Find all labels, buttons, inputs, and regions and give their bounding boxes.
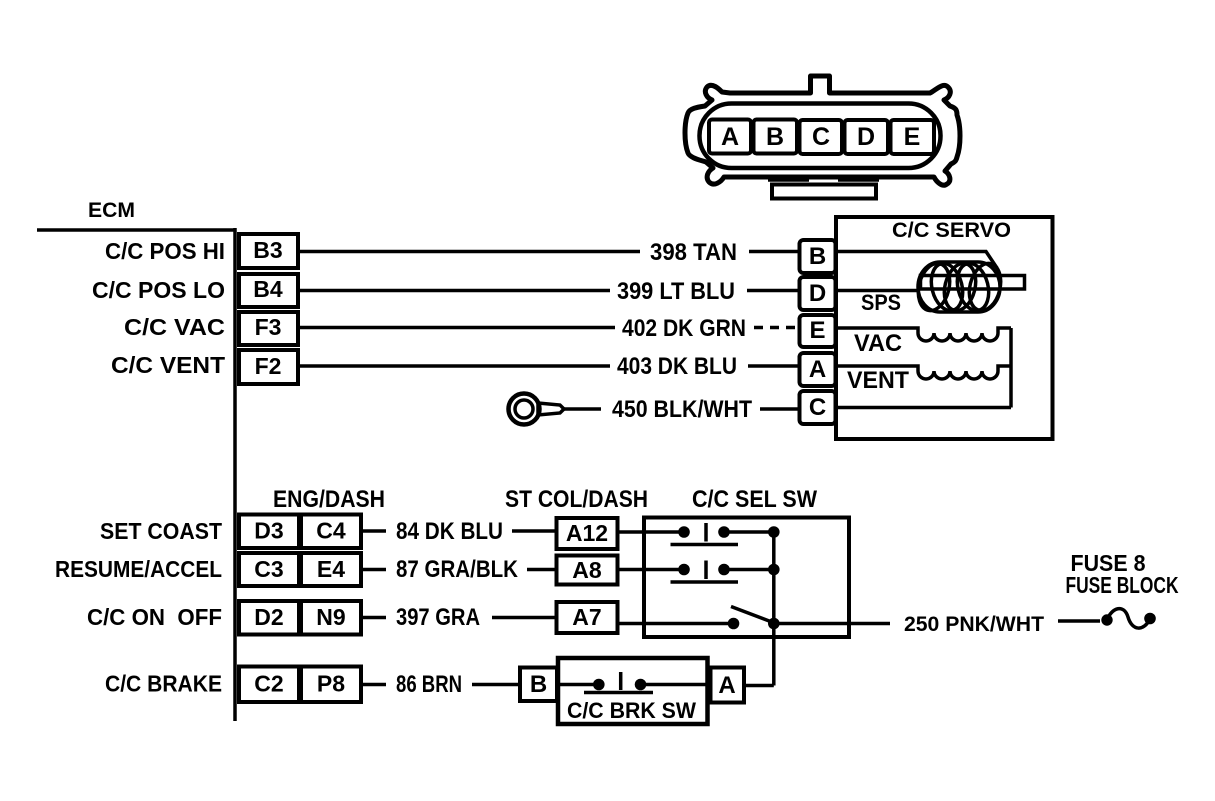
svg-text:E: E bbox=[809, 317, 825, 344]
svg-text:ST COL/DASH: ST COL/DASH bbox=[505, 486, 648, 513]
svg-text:RESUME/ACCEL: RESUME/ACCEL bbox=[55, 556, 222, 582]
svg-text:C4: C4 bbox=[316, 518, 346, 544]
svg-text:C/C VAC: C/C VAC bbox=[124, 314, 225, 340]
svg-text:A12: A12 bbox=[566, 520, 608, 546]
svg-text:A: A bbox=[809, 356, 826, 383]
svg-text:P8: P8 bbox=[317, 671, 345, 697]
svg-text:C/C ON OFF: C/C ON OFF bbox=[87, 604, 222, 630]
svg-text:ENG/DASH: ENG/DASH bbox=[273, 486, 385, 513]
svg-text:D2: D2 bbox=[254, 604, 283, 630]
svg-text:E: E bbox=[904, 123, 921, 151]
svg-text:ECM: ECM bbox=[88, 199, 135, 222]
svg-text:250 PNK/WHT: 250 PNK/WHT bbox=[904, 613, 1044, 636]
svg-text:C/C POS HI: C/C POS HI bbox=[105, 238, 225, 264]
svg-text:VENT: VENT bbox=[847, 367, 909, 394]
svg-text:D3: D3 bbox=[254, 518, 283, 544]
svg-text:C: C bbox=[809, 394, 826, 421]
svg-text:A: A bbox=[718, 672, 735, 699]
svg-text:C/C SEL SW: C/C SEL SW bbox=[692, 486, 817, 513]
svg-text:84 DK BLU: 84 DK BLU bbox=[396, 518, 503, 545]
svg-text:C/C SERVO: C/C SERVO bbox=[892, 219, 1011, 242]
svg-text:C/C BRAKE: C/C BRAKE bbox=[105, 671, 222, 697]
svg-text:D: D bbox=[809, 280, 826, 307]
svg-text:C/C POS LO: C/C POS LO bbox=[92, 277, 225, 303]
svg-text:A7: A7 bbox=[572, 604, 601, 630]
svg-text:C2: C2 bbox=[254, 671, 283, 697]
svg-text:87 GRA/BLK: 87 GRA/BLK bbox=[396, 556, 519, 583]
svg-text:403 DK BLU: 403 DK BLU bbox=[617, 353, 737, 380]
svg-text:C/C VENT: C/C VENT bbox=[111, 352, 225, 378]
svg-text:B: B bbox=[530, 671, 547, 698]
svg-text:FUSE BLOCK: FUSE BLOCK bbox=[1066, 572, 1179, 598]
svg-text:450 BLK/WHT: 450 BLK/WHT bbox=[612, 396, 752, 423]
svg-text:C3: C3 bbox=[254, 556, 283, 582]
svg-text:E4: E4 bbox=[317, 556, 345, 582]
svg-text:402 DK GRN: 402 DK GRN bbox=[622, 315, 746, 342]
svg-text:C/C BRK SW: C/C BRK SW bbox=[567, 698, 696, 723]
svg-text:B4: B4 bbox=[253, 276, 283, 302]
svg-text:B3: B3 bbox=[253, 237, 282, 263]
svg-text:D: D bbox=[857, 123, 875, 151]
svg-text:A: A bbox=[721, 123, 739, 151]
svg-text:SET COAST: SET COAST bbox=[100, 518, 222, 544]
svg-text:397 GRA: 397 GRA bbox=[396, 604, 480, 631]
svg-text:B: B bbox=[809, 243, 826, 270]
svg-text:F2: F2 bbox=[255, 353, 282, 379]
svg-text:SPS: SPS bbox=[861, 290, 901, 315]
svg-text:A8: A8 bbox=[572, 557, 602, 583]
svg-text:399 LT BLU: 399 LT BLU bbox=[617, 278, 735, 305]
svg-text:F3: F3 bbox=[255, 314, 282, 340]
svg-text:B: B bbox=[766, 123, 784, 151]
svg-text:VAC: VAC bbox=[854, 330, 902, 357]
svg-text:398 TAN: 398 TAN bbox=[650, 239, 737, 266]
svg-text:C: C bbox=[812, 123, 830, 151]
svg-text:N9: N9 bbox=[316, 604, 345, 630]
svg-text:86 BRN: 86 BRN bbox=[396, 671, 462, 698]
